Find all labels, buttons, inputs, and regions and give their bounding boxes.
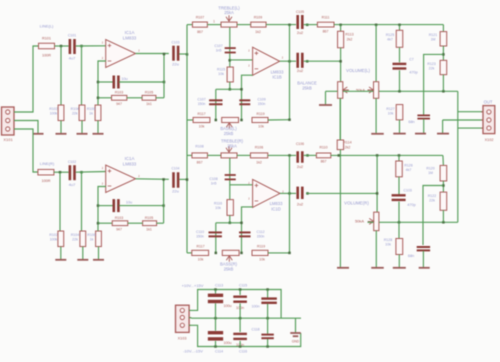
svg-text:4u7: 4u7 bbox=[69, 56, 76, 61]
svg-text:R127: R127 bbox=[386, 107, 394, 111]
svg-text:R123: R123 bbox=[427, 62, 435, 66]
svg-text:R106: R106 bbox=[87, 107, 95, 111]
svg-text:C115: C115 bbox=[239, 284, 247, 288]
svg-text:150n: 150n bbox=[198, 102, 206, 106]
svg-text:C103: C103 bbox=[172, 41, 180, 45]
svg-text:10k: 10k bbox=[199, 125, 205, 129]
svg-text:R121: R121 bbox=[429, 33, 437, 37]
svg-text:GND: GND bbox=[292, 340, 300, 344]
svg-text:867: 867 bbox=[197, 30, 203, 34]
svg-text:VOLUME(R): VOLUME(R) bbox=[344, 200, 369, 205]
svg-text:22u: 22u bbox=[172, 62, 179, 67]
svg-text:10k: 10k bbox=[258, 125, 264, 129]
svg-text:867: 867 bbox=[323, 30, 329, 34]
svg-text:R119: R119 bbox=[256, 112, 264, 116]
svg-text:R110: R110 bbox=[319, 145, 327, 149]
svg-text:C109: C109 bbox=[257, 98, 265, 102]
svg-text:22k: 22k bbox=[429, 199, 435, 203]
svg-text:100k: 100k bbox=[50, 238, 58, 242]
svg-text:R109: R109 bbox=[254, 15, 262, 19]
svg-text:C107: C107 bbox=[197, 98, 205, 102]
svg-text:R120: R120 bbox=[426, 167, 434, 171]
svg-text:10k: 10k bbox=[215, 206, 221, 210]
svg-text:R103: R103 bbox=[115, 216, 123, 220]
svg-text:C108: C108 bbox=[209, 177, 217, 181]
svg-text:LM833: LM833 bbox=[123, 162, 137, 167]
svg-text:100k: 100k bbox=[50, 112, 58, 116]
svg-text:R106: R106 bbox=[255, 145, 263, 149]
svg-text:C105: C105 bbox=[296, 10, 304, 14]
svg-text:25kA: 25kA bbox=[224, 10, 234, 15]
svg-text:1k2: 1k2 bbox=[256, 161, 262, 165]
svg-text:2k2: 2k2 bbox=[347, 38, 353, 42]
svg-text:R115: R115 bbox=[217, 68, 225, 72]
svg-text:IC1D: IC1D bbox=[271, 206, 281, 211]
svg-text:867: 867 bbox=[321, 160, 327, 164]
svg-text:IC1A: IC1A bbox=[125, 156, 135, 161]
svg-text:68n: 68n bbox=[408, 120, 414, 124]
svg-text:22k: 22k bbox=[72, 112, 78, 116]
svg-text:1k1: 1k1 bbox=[146, 228, 152, 232]
svg-text:IC1A: IC1A bbox=[125, 30, 135, 35]
svg-text:470p: 470p bbox=[409, 70, 417, 74]
svg-text:1M: 1M bbox=[431, 38, 436, 42]
svg-text:68n: 68n bbox=[408, 254, 414, 258]
svg-text:R126: R126 bbox=[404, 163, 412, 167]
svg-text:R128: R128 bbox=[384, 238, 392, 242]
svg-text:25kA: 25kA bbox=[227, 143, 237, 148]
svg-text:4k7: 4k7 bbox=[406, 168, 412, 172]
svg-text:R102: R102 bbox=[49, 233, 57, 237]
svg-text:R101: R101 bbox=[42, 37, 51, 41]
svg-text:LINE(L): LINE(L) bbox=[40, 24, 54, 29]
svg-text:22k: 22k bbox=[72, 238, 78, 242]
svg-text:1k: 1k bbox=[89, 112, 93, 116]
svg-text:R108: R108 bbox=[195, 145, 203, 149]
svg-text:1k: 1k bbox=[90, 238, 94, 242]
svg-text:100u: 100u bbox=[224, 341, 232, 345]
svg-text:1k2: 1k2 bbox=[255, 30, 261, 34]
svg-text:C102: C102 bbox=[68, 160, 76, 164]
svg-text:C7: C7 bbox=[409, 58, 414, 62]
svg-text:2u2: 2u2 bbox=[297, 203, 303, 207]
svg-text:-10V...-15V: -10V...-15V bbox=[183, 348, 203, 353]
svg-text:1n5: 1n5 bbox=[216, 49, 222, 53]
svg-text:2k2: 2k2 bbox=[345, 145, 351, 149]
svg-text:947: 947 bbox=[116, 228, 122, 232]
svg-text:R114: R114 bbox=[343, 141, 351, 145]
svg-text:1M: 1M bbox=[428, 171, 433, 175]
svg-text:22k: 22k bbox=[429, 66, 435, 70]
svg-text:+10V...+15V: +10V...+15V bbox=[182, 283, 204, 288]
svg-text:10k: 10k bbox=[388, 112, 394, 116]
svg-text:2u2: 2u2 bbox=[297, 165, 303, 169]
svg-text:4u7: 4u7 bbox=[69, 182, 76, 187]
svg-text:10u: 10u bbox=[121, 77, 127, 81]
svg-text:10k: 10k bbox=[218, 72, 224, 76]
svg-text:R104: R104 bbox=[71, 107, 79, 111]
svg-text:25kB: 25kB bbox=[224, 267, 234, 272]
svg-text:150n: 150n bbox=[257, 235, 265, 239]
svg-text:R102: R102 bbox=[49, 107, 57, 111]
svg-text:2u2: 2u2 bbox=[297, 31, 303, 35]
svg-text:C103: C103 bbox=[404, 188, 412, 192]
svg-text:1k1: 1k1 bbox=[146, 102, 152, 106]
svg-text:100u: 100u bbox=[224, 304, 232, 308]
svg-text:X103: X103 bbox=[178, 337, 187, 341]
svg-text:867: 867 bbox=[197, 161, 203, 165]
svg-text:C113: C113 bbox=[215, 284, 223, 288]
svg-text:10k: 10k bbox=[385, 243, 391, 247]
svg-text:100n: 100n bbox=[252, 305, 260, 309]
svg-text:OUT: OUT bbox=[484, 99, 493, 104]
svg-text:R113: R113 bbox=[345, 33, 353, 37]
svg-text:R104: R104 bbox=[71, 233, 79, 237]
svg-text:C106: C106 bbox=[296, 142, 304, 146]
svg-text:VOLUME(L): VOLUME(L) bbox=[346, 68, 370, 73]
svg-text:C110: C110 bbox=[196, 230, 204, 234]
svg-text:R116: R116 bbox=[214, 202, 222, 206]
svg-text:10u: 10u bbox=[126, 201, 132, 205]
svg-text:R117: R117 bbox=[197, 112, 205, 116]
svg-text:LM833: LM833 bbox=[123, 36, 137, 41]
svg-text:X101: X101 bbox=[3, 137, 13, 142]
svg-text:R105: R105 bbox=[145, 216, 153, 220]
svg-text:C114: C114 bbox=[215, 349, 223, 353]
svg-text:100R: 100R bbox=[41, 179, 50, 183]
svg-text:R125: R125 bbox=[386, 33, 394, 37]
svg-text:C104: C104 bbox=[172, 166, 180, 170]
svg-text:IC1B: IC1B bbox=[272, 75, 282, 80]
svg-text:1: 1 bbox=[213, 19, 215, 23]
svg-text:R103: R103 bbox=[115, 91, 123, 95]
svg-text:470p: 470p bbox=[407, 203, 415, 207]
svg-text:25kB: 25kB bbox=[302, 85, 312, 90]
svg-text:947: 947 bbox=[116, 102, 122, 106]
svg-text:X102: X102 bbox=[485, 138, 494, 142]
svg-text:2u2: 2u2 bbox=[297, 69, 303, 73]
svg-text:LINE(R): LINE(R) bbox=[40, 161, 55, 166]
svg-text:1n5: 1n5 bbox=[211, 181, 217, 185]
svg-text:R107: R107 bbox=[196, 15, 204, 19]
svg-text:R111: R111 bbox=[322, 15, 330, 19]
svg-text:C116: C116 bbox=[239, 349, 247, 353]
svg-text:150n: 150n bbox=[196, 235, 204, 239]
svg-text:R117: R117 bbox=[196, 245, 204, 249]
svg-text:C118: C118 bbox=[251, 328, 259, 332]
svg-text:50kA: 50kA bbox=[355, 219, 364, 224]
svg-text:R122: R122 bbox=[428, 194, 436, 198]
svg-text:10k: 10k bbox=[259, 257, 265, 261]
svg-text:150n: 150n bbox=[258, 102, 266, 106]
svg-text:22u: 22u bbox=[172, 188, 179, 193]
svg-text:C112: C112 bbox=[256, 230, 264, 234]
svg-text:4k7: 4k7 bbox=[387, 37, 393, 41]
svg-text:R119: R119 bbox=[257, 245, 265, 249]
svg-text:C101: C101 bbox=[68, 34, 76, 38]
svg-text:10k: 10k bbox=[198, 257, 204, 261]
svg-text:100R: 100R bbox=[42, 54, 51, 58]
svg-text:R105: R105 bbox=[145, 91, 153, 95]
svg-text:25kB: 25kB bbox=[224, 131, 234, 136]
svg-text:C107: C107 bbox=[214, 44, 222, 48]
svg-text:R106: R106 bbox=[87, 233, 95, 237]
